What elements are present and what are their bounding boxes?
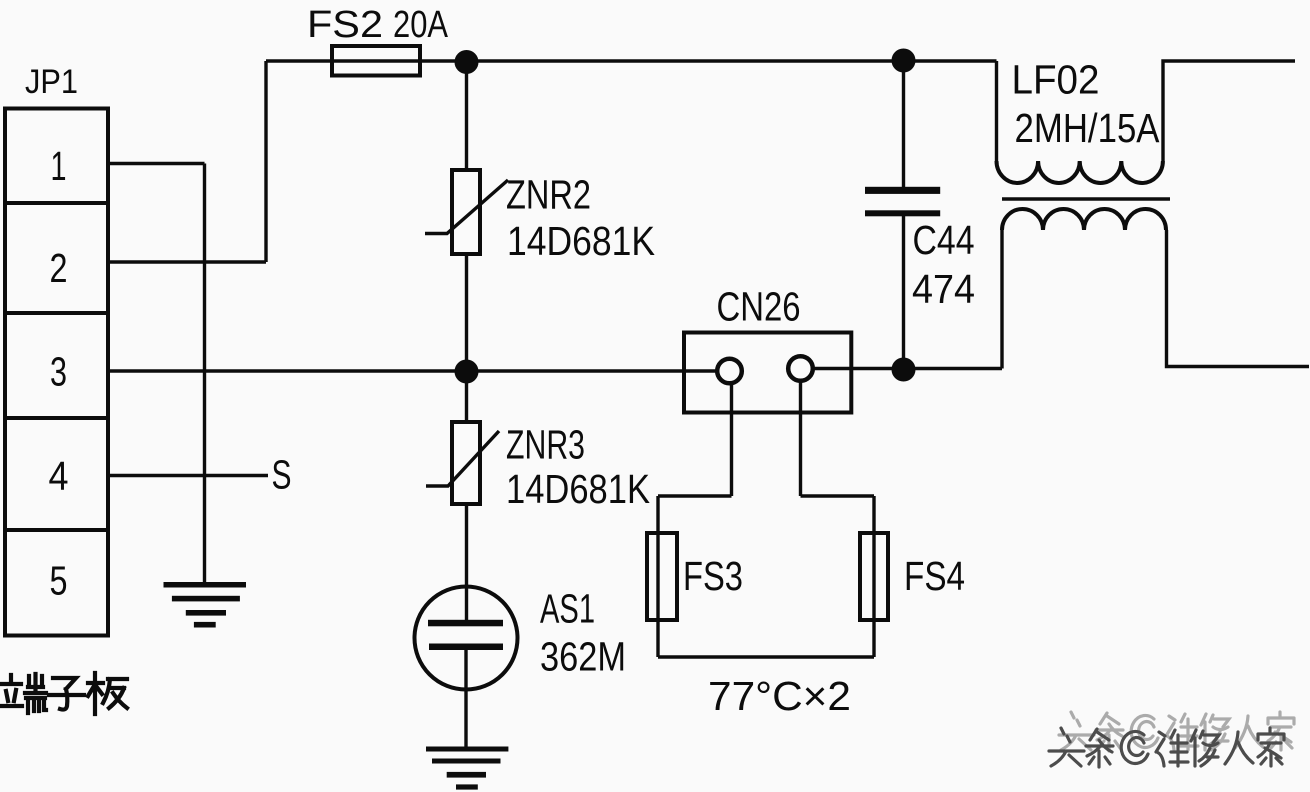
fuse FS2	[332, 46, 420, 76]
choke LF02 lower winding	[1002, 209, 1166, 230]
choke LF02 lower winding right lead	[1167, 230, 1310, 367]
wire pin4 horizontal	[108, 474, 268, 477]
wire CN26 left pin down	[730, 383, 733, 496]
JP1 cell divider 1/2	[5, 201, 108, 205]
capacitor C44 top plate	[865, 187, 940, 194]
terminal board caption 端子板 (hand drawn)	[0, 673, 127, 714]
wire pin2 vertical up	[264, 61, 267, 262]
varistor ZNR2 body	[452, 170, 480, 254]
wire AS1 bottom lead	[464, 647, 467, 747]
junction node at C44 bottom	[892, 358, 916, 382]
svg-text:77°C×2: 77°C×2	[708, 673, 851, 719]
svg-text:2MH/15A: 2MH/15A	[1015, 105, 1161, 151]
wire jog FS4 to right pin	[801, 494, 875, 497]
svg-text:362M: 362M	[540, 634, 626, 680]
svg-text:CN26: CN26	[717, 284, 801, 330]
wire jog to FS3	[658, 494, 732, 497]
svg-text:AS1: AS1	[540, 586, 595, 632]
choke LF02 core	[1002, 197, 1170, 201]
wire pin1 vertical to ground	[203, 164, 206, 583]
watermark char 家	[1258, 728, 1284, 766]
watermark char 人	[1225, 732, 1253, 764]
varistor ZNR2 diagonal	[425, 180, 508, 234]
capacitor C44 bottom plate	[865, 210, 940, 216]
svg-text:FS4: FS4	[904, 553, 965, 599]
wire ZNR3 top lead	[465, 371, 468, 422]
thermal fuse FS4 body	[860, 533, 888, 620]
thermal fuse FS3 body	[647, 533, 677, 620]
junction node at C44 top	[892, 49, 916, 73]
wire CN26 right pin to C44 node	[813, 367, 1002, 370]
JP1 cell divider 4/5	[5, 528, 108, 532]
char 板 left radical 木	[88, 673, 103, 714]
svg-text:20A: 20A	[393, 4, 449, 46]
watermark @ sign	[1121, 731, 1148, 763]
svg-text:14D681K: 14D681K	[506, 466, 650, 512]
choke LF02 upper winding	[996, 161, 1162, 183]
svg-text:474: 474	[912, 266, 975, 312]
svg-text:ZNR3: ZNR3	[506, 422, 585, 468]
AS1 top electrode	[428, 620, 503, 627]
svg-text:S: S	[272, 452, 292, 498]
wire ZNR2 bottom lead	[465, 254, 468, 371]
surge arrester AS1 envelope	[415, 587, 518, 690]
varistor ZNR3 diagonal	[426, 431, 499, 486]
wire ZNR2 top lead	[465, 62, 468, 170]
char 板 right part 反	[103, 679, 127, 708]
svg-text:2: 2	[50, 245, 68, 291]
wire through FS3	[656, 496, 659, 657]
svg-text:LF02: LF02	[1012, 57, 1100, 103]
svg-text:JP1: JP1	[25, 63, 78, 101]
junction node at FS2 output	[455, 50, 479, 74]
CN26 left pin circle	[717, 359, 742, 384]
char 端 left radical 立	[0, 675, 22, 706]
svg-text:4: 4	[49, 453, 69, 499]
svg-text:FS2: FS2	[307, 4, 383, 46]
watermark ghost copy	[1059, 712, 1294, 751]
JP1 cell divider 3/4	[5, 416, 108, 420]
wire line3 N horizontal	[108, 369, 717, 372]
junction node line3 at ZNR3	[455, 360, 479, 384]
svg-text:1: 1	[51, 143, 67, 189]
char 端 right part 耑	[25, 674, 46, 713]
wire C44 top lead	[902, 61, 905, 187]
svg-text:FS3: FS3	[683, 553, 743, 599]
watermark char 条	[1086, 729, 1113, 767]
watermark char 头	[1049, 728, 1084, 766]
choke LF02 upper winding right lead	[1163, 61, 1295, 161]
CN26 right pin circle	[788, 356, 813, 381]
wire top horizontal L line	[266, 59, 997, 62]
svg-text:ZNR2: ZNR2	[506, 172, 591, 218]
connector CN26 outline	[684, 333, 851, 413]
watermark 头条@维修人家 (hand drawn)	[1049, 712, 1294, 767]
JP1 cell divider 2/3	[5, 311, 108, 315]
wire ZNR3 bottom lead into AS1	[465, 504, 468, 626]
choke LF02 upper winding left lead	[995, 61, 998, 161]
watermark char 维	[1156, 730, 1188, 766]
AS1 bottom electrode	[429, 644, 503, 651]
watermark char 修	[1191, 730, 1219, 766]
wire bottom between FS3 FS4	[658, 655, 874, 658]
svg-text:C44: C44	[913, 217, 975, 263]
wire pin1 horizontal	[108, 162, 205, 165]
wire pin2 horizontal	[108, 260, 266, 263]
varistor ZNR3 body	[452, 422, 480, 504]
wire through FS4	[872, 496, 875, 657]
wire CN26 right pin down	[799, 381, 802, 497]
svg-text:5: 5	[50, 558, 68, 604]
choke LF02 lower winding left lead	[1000, 230, 1003, 369]
svg-text:14D681K: 14D681K	[507, 218, 655, 264]
connector JP1 outline	[5, 109, 108, 636]
ground symbol under AS1	[426, 747, 508, 790]
svg-text:3: 3	[50, 349, 67, 395]
char 子	[49, 678, 84, 710]
wire C44 bottom lead	[902, 216, 905, 370]
ground symbol left	[164, 582, 247, 628]
